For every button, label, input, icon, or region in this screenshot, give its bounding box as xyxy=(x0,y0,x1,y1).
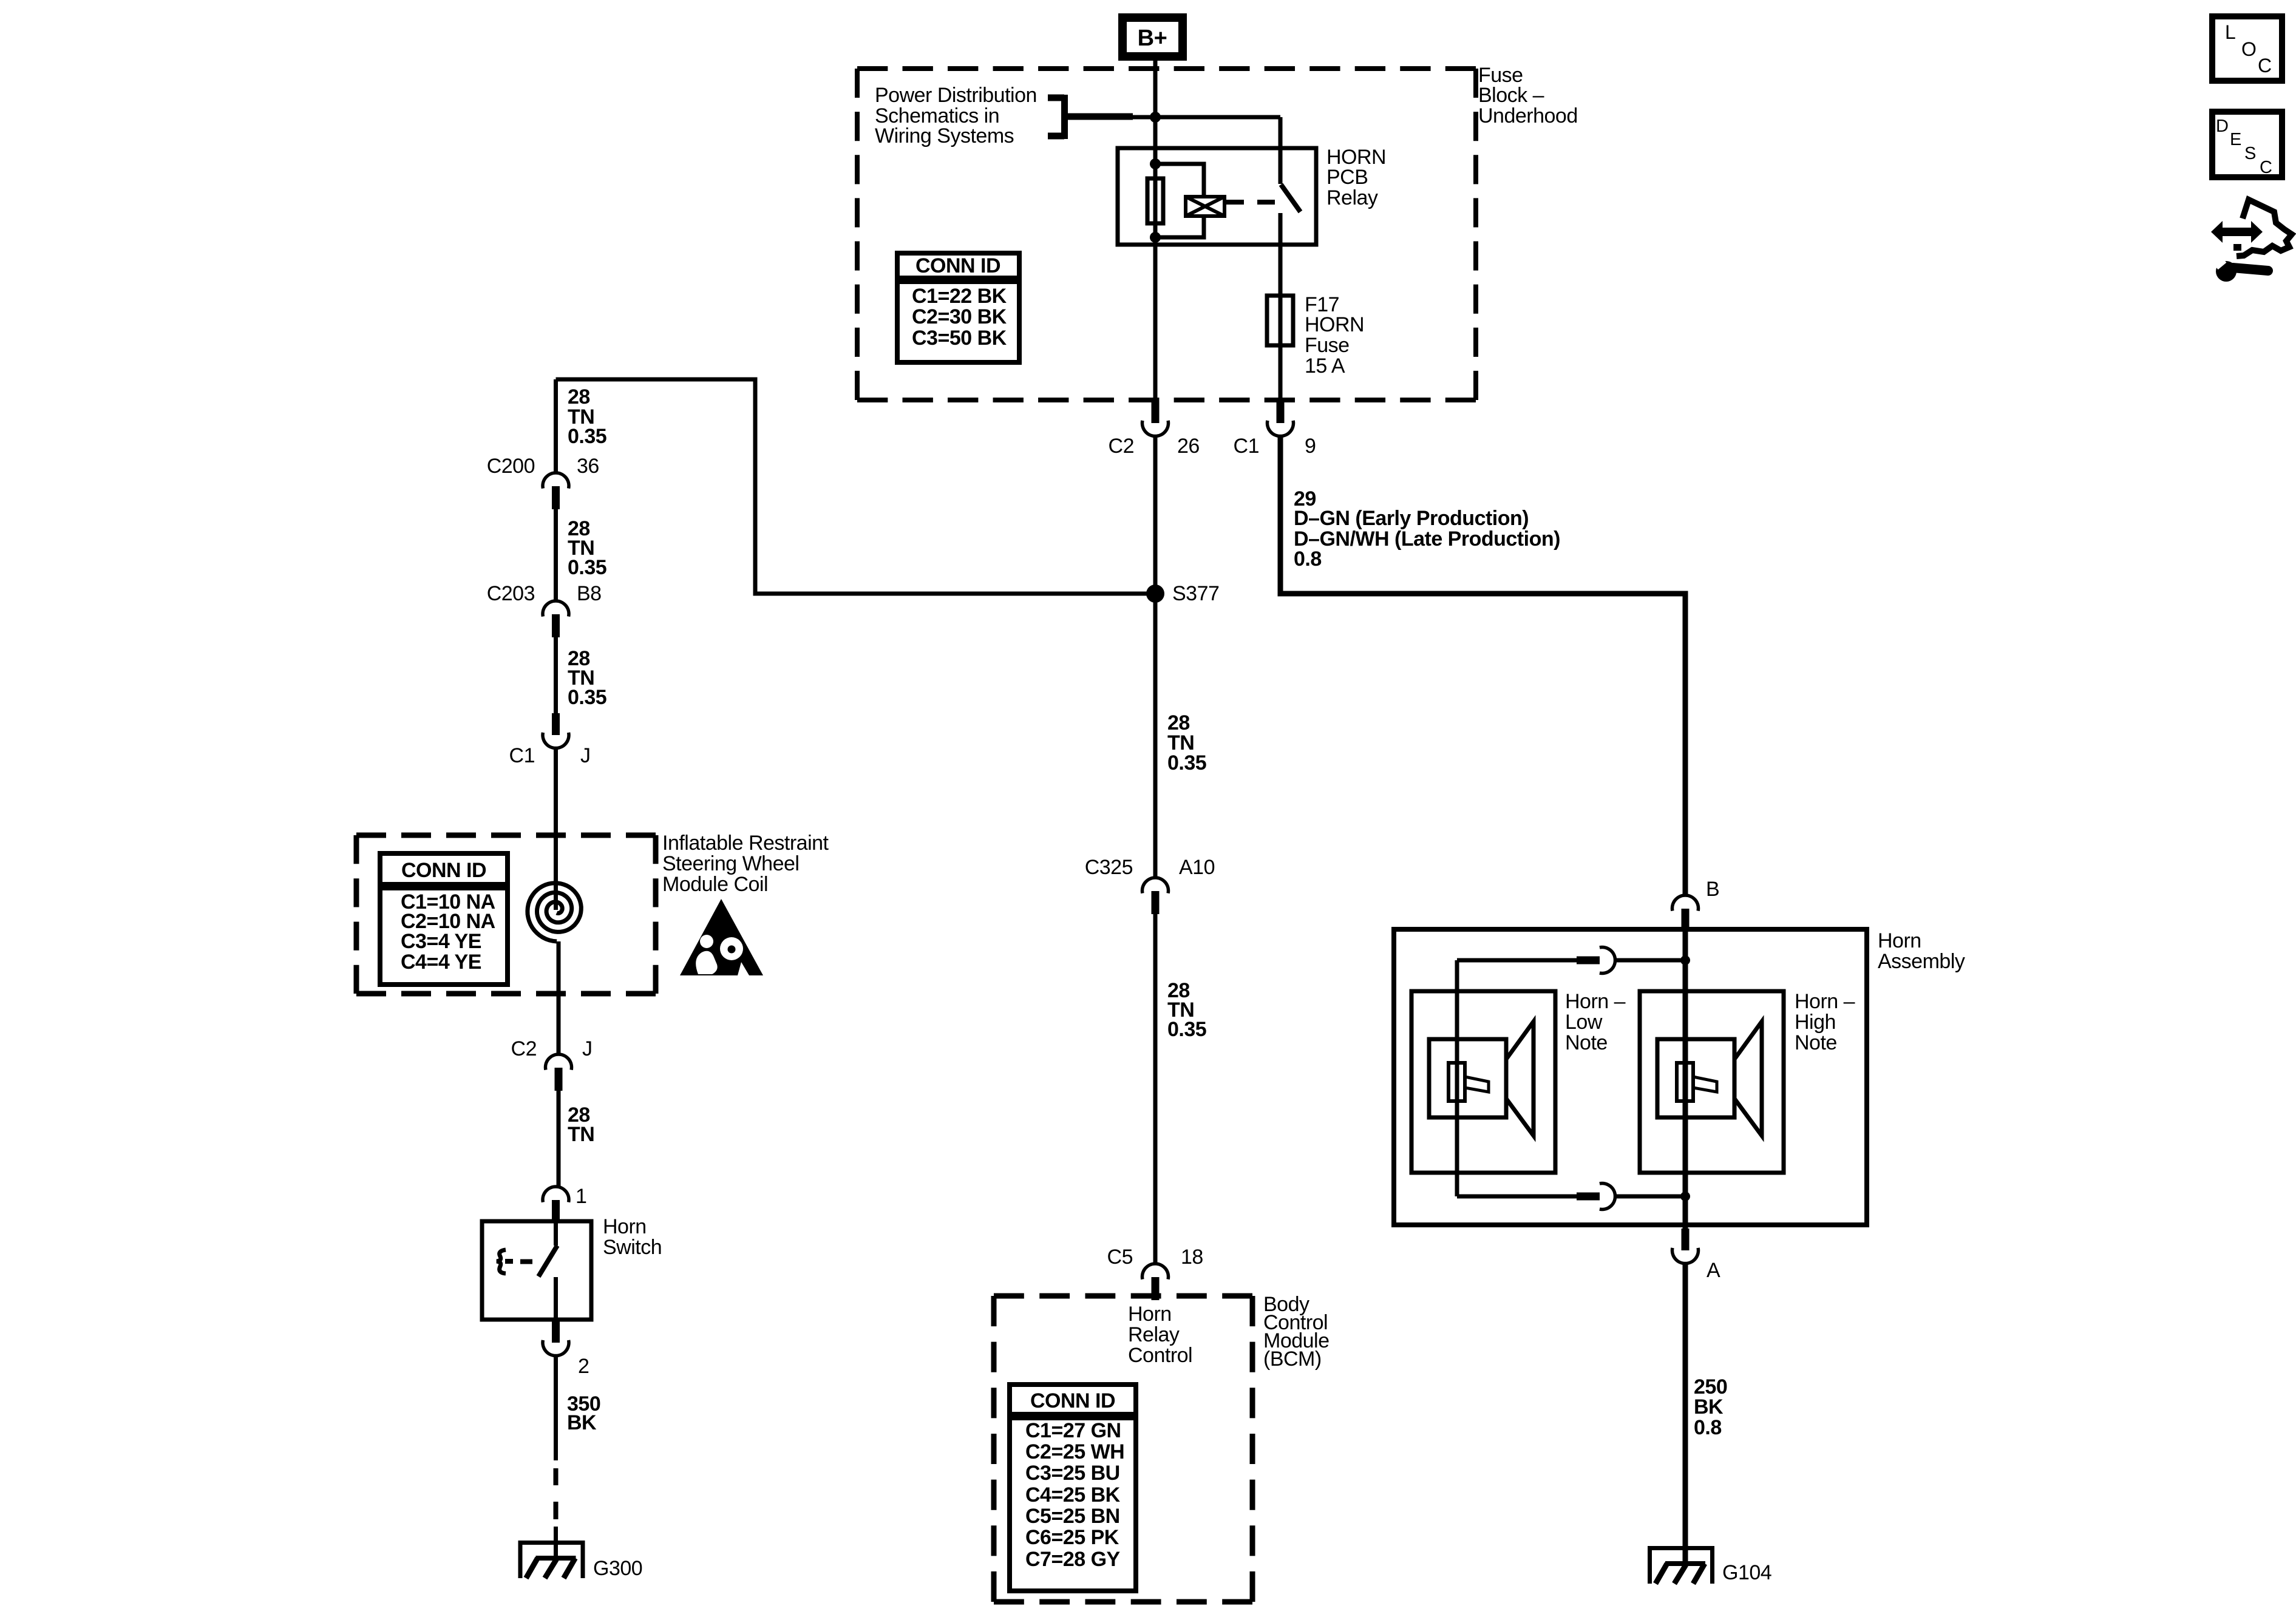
wire label 28 TN 0.35 left3 xyxy=(568,647,606,709)
wire through resistor xyxy=(1153,181,1158,402)
relay actuation dashed link xyxy=(1226,200,1275,205)
svg-text:O: O xyxy=(2241,38,2256,60)
wire low horn upper branch xyxy=(1457,958,1577,963)
horn switch box xyxy=(482,1221,591,1320)
svg-text:CONN ID: CONN ID xyxy=(915,254,1000,277)
connector B horn assembly xyxy=(1673,878,1720,932)
connector C2 pin 26 xyxy=(1109,401,1200,458)
svg-text:C2: C2 xyxy=(511,1037,537,1060)
connector C325 pin A10 xyxy=(1085,856,1215,914)
svg-text:Underhood: Underhood xyxy=(1478,104,1578,127)
svg-text:TN: TN xyxy=(568,1123,594,1146)
svg-text:C1: C1 xyxy=(1234,435,1259,458)
svg-text:C3=25 BU: C3=25 BU xyxy=(1025,1462,1120,1485)
battery feed B+ xyxy=(1123,18,1183,56)
svg-text:Steering Wheel: Steering Wheel xyxy=(662,852,799,875)
svg-text:Switch: Switch xyxy=(603,1236,662,1259)
svg-text:Power Distribution: Power Distribution xyxy=(875,84,1037,107)
svg-text:Relay: Relay xyxy=(1128,1323,1180,1346)
svg-text:C3=4 YE: C3=4 YE xyxy=(401,930,481,953)
svg-text:G300: G300 xyxy=(593,1557,642,1580)
fuse F17 xyxy=(1267,296,1293,345)
bracket for power distribution reference xyxy=(1048,95,1133,139)
wire left top xyxy=(554,379,558,473)
svg-text:Horn –: Horn – xyxy=(1565,990,1626,1013)
label Horn Relay Control xyxy=(1128,1303,1192,1367)
wire to relay coil xyxy=(1155,164,1204,197)
connector horn switch pin 1 xyxy=(543,1185,586,1223)
clockspring coil symbol xyxy=(528,883,581,941)
svg-text:D–GN/WH (Late Production): D–GN/WH (Late Production) xyxy=(1294,527,1560,551)
connector low horn feed xyxy=(1577,947,1615,974)
airbag warning triangle xyxy=(680,899,763,975)
node horn top xyxy=(1680,955,1690,965)
ground G104 xyxy=(1648,1546,1771,1584)
svg-text:J: J xyxy=(582,1037,593,1060)
body control module dashed box xyxy=(994,1296,1252,1602)
svg-text:BK: BK xyxy=(567,1411,597,1434)
wire C1 to coil xyxy=(554,748,558,910)
wire label 250 BK 0.8 xyxy=(1694,1375,1727,1439)
svg-text:Module Coil: Module Coil xyxy=(662,873,768,896)
svg-text:S377: S377 xyxy=(1172,582,1219,605)
connector C2 pin J lower xyxy=(511,1037,593,1091)
svg-text:Note: Note xyxy=(1795,1031,1837,1054)
wire label 350 BK xyxy=(567,1392,600,1434)
svg-text:C1=27 GN: C1=27 GN xyxy=(1025,1419,1121,1442)
wire relay to fuse xyxy=(1279,245,1283,402)
svg-text:High: High xyxy=(1795,1011,1836,1034)
wire switch to ground xyxy=(554,1355,558,1460)
svg-text:Control: Control xyxy=(1128,1344,1192,1367)
label HORN PCB Relay xyxy=(1326,146,1386,209)
svg-text:C4=25 BK: C4=25 BK xyxy=(1025,1483,1121,1507)
svg-text:Horn: Horn xyxy=(1878,929,1921,952)
relay coil xyxy=(1186,197,1224,216)
wire coil to C2J xyxy=(557,941,561,1054)
wire label 28 TN xyxy=(568,1103,594,1146)
svg-text:C: C xyxy=(2260,158,2272,177)
svg-text:0.35: 0.35 xyxy=(568,425,606,448)
wire B+ to relay xyxy=(1153,58,1158,181)
svg-text:C1=22 BK: C1=22 BK xyxy=(912,285,1007,308)
wire C1-9 down and across to horn assembly xyxy=(1280,436,1685,895)
wire connector to main xyxy=(1615,958,1685,963)
svg-text:C203: C203 xyxy=(487,582,535,605)
svg-text:9: 9 xyxy=(1305,435,1316,458)
svg-text:Horn –: Horn – xyxy=(1795,990,1855,1013)
svg-text:B8: B8 xyxy=(577,582,602,605)
label Horn High Note xyxy=(1795,990,1855,1054)
svg-text:A: A xyxy=(1707,1259,1720,1282)
svg-text:26: 26 xyxy=(1177,435,1200,458)
svg-text:CONN ID: CONN ID xyxy=(1030,1389,1115,1412)
horn pcb relay box xyxy=(1118,148,1316,245)
svg-text:Inflatable Restraint: Inflatable Restraint xyxy=(662,832,829,855)
wire horn A to ground xyxy=(1683,1263,1688,1566)
svg-text:0.35: 0.35 xyxy=(1167,1018,1206,1041)
svg-text:Assembly: Assembly xyxy=(1878,950,1965,973)
svg-text:15 A: 15 A xyxy=(1305,354,1345,378)
svg-text:Fuse: Fuse xyxy=(1305,334,1350,357)
wire low horn vertical xyxy=(1455,960,1459,1196)
svg-text:C200: C200 xyxy=(487,455,535,478)
wire dashed to G300 xyxy=(554,1468,559,1560)
node horn bottom xyxy=(1680,1192,1690,1201)
label Power Distribution reference xyxy=(875,84,1037,147)
wire C2J to horn switch xyxy=(557,1091,561,1187)
adjust tool icon xyxy=(2211,200,2292,282)
label Horn Switch xyxy=(603,1215,662,1259)
label Horn Low Note xyxy=(1565,990,1626,1054)
svg-text:A10: A10 xyxy=(1179,856,1215,879)
svg-text:E: E xyxy=(2230,130,2241,149)
svg-text:C4=4 YE: C4=4 YE xyxy=(401,951,481,974)
svg-text:Note: Note xyxy=(1565,1031,1608,1054)
svg-text:Horn: Horn xyxy=(1128,1303,1172,1326)
CONN ID table coil xyxy=(380,853,508,985)
wire main through horn assembly xyxy=(1683,932,1688,1229)
horn switch contacts xyxy=(497,1221,557,1320)
wire C325 to C5 xyxy=(1153,914,1158,1264)
svg-text:Relay: Relay xyxy=(1326,186,1378,209)
node relay top xyxy=(1150,158,1161,169)
connector C200 pin 36 xyxy=(487,455,599,509)
wire label 28 TN 0.35 left2 xyxy=(568,517,606,579)
ground G300 xyxy=(518,1541,643,1580)
label Body Control Module BCM xyxy=(1263,1293,1330,1371)
svg-text:D–GN (Early Production): D–GN (Early Production) xyxy=(1294,507,1529,530)
DESC icon box xyxy=(2212,112,2282,177)
wire label 28 TN 0.35 middle1 xyxy=(1167,711,1206,775)
svg-text:0.35: 0.35 xyxy=(568,686,606,709)
horn low note speaker xyxy=(1411,991,1555,1173)
horn assembly box xyxy=(1394,929,1867,1225)
wire low horn lower branch xyxy=(1457,1195,1577,1199)
wire from relay coil xyxy=(1155,216,1204,237)
steering wheel coil dashed box xyxy=(356,835,656,994)
svg-text:0.8: 0.8 xyxy=(1694,1416,1722,1439)
connector C203 pin B8 xyxy=(487,582,602,637)
svg-text:D: D xyxy=(2216,117,2228,136)
svg-text:C7=28 GY: C7=28 GY xyxy=(1025,1548,1121,1571)
svg-text:C1: C1 xyxy=(509,744,535,767)
CONN ID table BCM xyxy=(1010,1385,1136,1591)
wire connector to main lower xyxy=(1615,1195,1685,1199)
svg-text:2: 2 xyxy=(578,1355,589,1378)
wire C200 to C203 xyxy=(554,509,558,601)
svg-text:C: C xyxy=(2258,55,2272,76)
connector horn switch pin 2 xyxy=(543,1321,589,1378)
wire label 29 D-GN xyxy=(1294,487,1560,571)
svg-text:B: B xyxy=(1706,878,1719,901)
svg-text:1: 1 xyxy=(576,1185,586,1208)
svg-text:C2: C2 xyxy=(1109,435,1134,458)
label Horn Assembly xyxy=(1878,929,1965,973)
svg-text:Block –: Block – xyxy=(1478,84,1544,107)
wire label 28 TN 0.35 left1 xyxy=(568,385,606,448)
wire C203 to C1 xyxy=(554,637,558,713)
connector A horn assembly xyxy=(1673,1229,1721,1282)
horn high note speaker xyxy=(1640,991,1784,1173)
svg-text:L: L xyxy=(2225,21,2235,43)
svg-text:C2=30 BK: C2=30 BK xyxy=(912,305,1007,328)
label Fuse Block - Underhood xyxy=(1478,64,1578,127)
svg-text:Wiring Systems: Wiring Systems xyxy=(875,124,1014,147)
svg-text:(BCM): (BCM) xyxy=(1263,1347,1322,1371)
LOC icon box xyxy=(2212,16,2282,81)
wire power distribution feed xyxy=(1129,115,1280,120)
wire label 28 TN 0.35 middle2 xyxy=(1167,979,1206,1041)
svg-text:J: J xyxy=(580,744,591,767)
svg-text:C6=25 PK: C6=25 PK xyxy=(1025,1526,1119,1549)
CONN ID table fuse block xyxy=(897,253,1019,362)
svg-text:HORN: HORN xyxy=(1305,313,1364,336)
connector C1 pin J xyxy=(509,713,591,767)
svg-text:36: 36 xyxy=(577,455,599,478)
splice S377 xyxy=(1146,582,1219,605)
fuse block underhood dashed box xyxy=(857,69,1476,400)
svg-text:S: S xyxy=(2244,144,2256,163)
svg-text:0.35: 0.35 xyxy=(1167,751,1206,775)
relay resistor xyxy=(1147,178,1163,223)
wire S377 to C325 xyxy=(1153,436,1158,878)
svg-text:0.35: 0.35 xyxy=(568,556,606,579)
svg-text:18: 18 xyxy=(1181,1246,1203,1269)
junction node at B+ feed xyxy=(1150,112,1161,123)
connector low horn return xyxy=(1577,1184,1615,1210)
label Inflatable Restraint Steering Wheel Module Coil xyxy=(662,832,829,896)
svg-text:C3=50 BK: C3=50 BK xyxy=(912,327,1007,350)
node relay bottom xyxy=(1150,232,1161,243)
svg-text:BK: BK xyxy=(1694,1395,1724,1419)
svg-text:C5: C5 xyxy=(1107,1246,1133,1269)
svg-text:C5=25 BN: C5=25 BN xyxy=(1025,1505,1120,1528)
connector C5 pin 18 xyxy=(1107,1246,1203,1300)
connector C1 pin 9 xyxy=(1234,401,1316,458)
svg-text:Horn: Horn xyxy=(603,1215,647,1238)
svg-text:CONN ID: CONN ID xyxy=(401,859,486,882)
relay switch xyxy=(1280,117,1300,245)
label F17 HORN Fuse 15 A xyxy=(1305,293,1364,378)
svg-text:C325: C325 xyxy=(1085,856,1133,879)
wire left feed horizontal xyxy=(556,379,1156,594)
svg-text:B+: B+ xyxy=(1138,25,1167,51)
svg-text:Low: Low xyxy=(1565,1011,1603,1034)
svg-text:C2=25 WH: C2=25 WH xyxy=(1025,1440,1124,1463)
svg-text:0.8: 0.8 xyxy=(1294,547,1322,571)
svg-text:G104: G104 xyxy=(1722,1561,1771,1584)
svg-text:PCB: PCB xyxy=(1326,166,1368,189)
